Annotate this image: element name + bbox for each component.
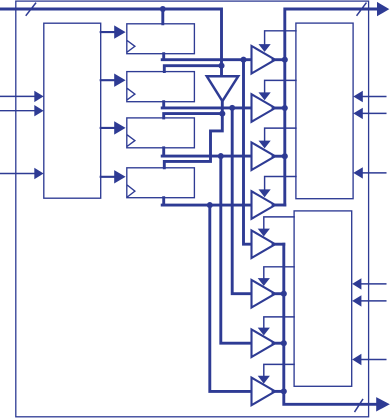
- wire: buffer 7 output: [273, 342, 284, 345]
- node: buffer 2 on bus A: [282, 105, 288, 111]
- enable wire buffer 4: [265, 177, 296, 191]
- select arrow decoder to register 3: [101, 127, 116, 129]
- input arrow write enable: [0, 173, 35, 175]
- input arrow write address B: [0, 110, 35, 112]
- tri-state buffer 7: [252, 329, 276, 357]
- wire: buffer 6 output: [273, 292, 284, 295]
- input arrow read address A2: [362, 112, 386, 114]
- wire: register 2 Q output: [162, 102, 251, 108]
- register box 2: [127, 72, 195, 102]
- node: buffer 7 on bus B: [281, 340, 287, 346]
- clock chevron register 3: [128, 135, 135, 146]
- enable wire buffer 1: [265, 31, 296, 45]
- node: Q1 branch: [240, 57, 246, 63]
- input arrow write address A: [0, 95, 35, 97]
- tri-state buffer 4: [252, 191, 276, 219]
- register box 1: [127, 24, 195, 54]
- tri-state buffer 6: [252, 280, 276, 308]
- data input bus (top, thick): [0, 9, 222, 76]
- bus width slash (bottom right): [355, 400, 363, 412]
- read decoder box A (top right): [296, 23, 353, 199]
- wire: buffer 8 output: [273, 390, 284, 393]
- node: buffer 1 on bus A: [282, 57, 288, 63]
- node: Q3 branch: [218, 153, 224, 159]
- select arrow decoder to register 1: [101, 31, 116, 33]
- wire: U1 output down to node A: [221, 101, 224, 114]
- enable wire buffer 7: [264, 317, 294, 329]
- tri-state buffer 3: [252, 142, 276, 170]
- write decoder box: [44, 23, 101, 198]
- wire: register 1 Q output: [162, 54, 251, 60]
- clock chevron register 4: [128, 185, 135, 197]
- enable wire buffer 6: [264, 267, 294, 279]
- wire: Q2 down to buffer 6: [232, 108, 251, 294]
- wire: register 4 Q output: [162, 198, 251, 205]
- node: buffer 8 on bus B: [281, 388, 287, 394]
- data output bus A (top right): [285, 9, 380, 205]
- wire: buffer 2 output: [273, 107, 285, 110]
- register box 3: [127, 118, 195, 148]
- wire: buffer 1 output: [273, 58, 285, 61]
- node A: data tap for register 3: [219, 111, 225, 117]
- tri-state buffer 2: [252, 94, 276, 122]
- register box 4: [127, 168, 195, 198]
- select arrow decoder to register 2: [101, 79, 116, 81]
- input arrow read address B1: [361, 283, 386, 285]
- tri-state buffer 1: [252, 46, 276, 74]
- node: Q4 branch: [207, 202, 213, 208]
- wire: data to register 2 D input: [164, 66, 221, 72]
- wire: data zigzag down to register 4 D input: [164, 114, 222, 168]
- wire: buffer 3 output: [273, 155, 285, 158]
- wire: Q4 down to buffer 8: [210, 205, 252, 391]
- tri-state buffer 5: [252, 230, 276, 258]
- input arrow read address A1: [362, 96, 386, 98]
- wire: register 3 Q output: [162, 148, 251, 156]
- select arrow decoder to register 4: [101, 176, 116, 178]
- clock chevron register 1: [128, 41, 135, 52]
- wire: Q3 down to buffer 7: [221, 156, 252, 343]
- input arrow read enable A: [362, 172, 386, 174]
- read decoder box B (bottom right): [294, 211, 352, 386]
- enable wire buffer 2: [265, 80, 296, 93]
- node: data tap for register 2: [218, 63, 224, 69]
- node: buffer 3 on bus A: [282, 153, 288, 159]
- bus width slash (top right): [357, 3, 366, 15]
- tri-state buffer 8: [252, 378, 276, 406]
- wire: bus down to register 1 D input: [161, 9, 164, 24]
- bus width slash (top left): [26, 3, 35, 15]
- wire: buffer 5 output: [273, 243, 284, 246]
- wire: data to register 3 D input: [164, 114, 223, 118]
- arrowhead output bus B: [376, 397, 390, 411]
- arrowhead output bus A: [377, 2, 389, 16]
- node: buffer 6 on bus B: [281, 291, 287, 297]
- node: bus tap to register 1: [160, 6, 166, 12]
- buffer U1 (down-pointing data driver): [207, 76, 238, 101]
- wire: buffer 4 output: [273, 204, 285, 207]
- data output bus B (bottom right): [284, 244, 380, 404]
- node: Q2 branch: [229, 105, 235, 111]
- wire: Q1 down to buffer 5: [244, 60, 252, 245]
- input arrow read address B2: [361, 300, 386, 302]
- input arrow read enable B: [361, 359, 386, 361]
- enable wire buffer 8: [264, 364, 294, 376]
- enable wire buffer 3: [265, 128, 296, 142]
- clock chevron register 2: [128, 89, 135, 100]
- enable wire buffer 5: [264, 217, 294, 230]
